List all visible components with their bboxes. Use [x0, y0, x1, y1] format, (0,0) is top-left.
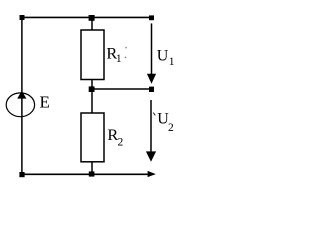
resistor R2	[81, 113, 104, 162]
voltage source E	[6, 91, 34, 117]
node junction above R1	[89, 15, 95, 21]
svg-text:2: 2	[168, 122, 174, 134]
wire stub from top rail to R1	[91, 17, 93, 30]
voltage arrow U2	[146, 100, 156, 162]
label U1	[157, 47, 175, 68]
label U2	[153, 111, 174, 135]
voltage arrow U1	[147, 23, 156, 83]
node junction between R1 and R2	[89, 86, 95, 92]
svg-text:2: 2	[118, 136, 124, 148]
node middle-right junction	[149, 87, 154, 92]
node bottom-left junction	[19, 172, 24, 177]
wire middle rail	[92, 88, 151, 90]
node top-right junction	[149, 15, 154, 20]
wire left branch vertical	[21, 17, 23, 174]
arrowhead bottom-right	[148, 171, 156, 177]
svg-text:1: 1	[116, 53, 122, 65]
wire bottom rail	[21, 173, 149, 175]
wire stub R2 bottom	[91, 162, 93, 175]
label R2	[107, 125, 123, 148]
resistor R1	[81, 30, 104, 80]
svg-text:U: U	[157, 47, 169, 64]
node top-left junction	[20, 15, 25, 20]
wire stub R1 bottom to R2 top	[91, 79, 93, 114]
label R1	[106, 44, 126, 65]
svg-text:E: E	[40, 93, 50, 112]
node junction below R2	[89, 171, 95, 176]
svg-text:1: 1	[169, 56, 175, 68]
wire top rail	[21, 16, 152, 18]
